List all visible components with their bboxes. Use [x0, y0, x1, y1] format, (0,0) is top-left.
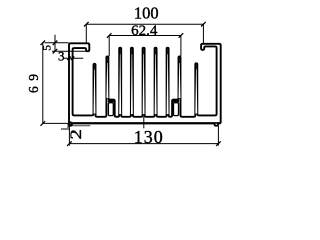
base bottom edge emphasis	[70, 122, 219, 124]
dim 2 ext right	[73, 125, 91, 127]
cap fill right	[172, 100, 179, 102]
fin hollow slit x=120.2	[119, 54, 121, 114]
svg-text:69: 69	[26, 69, 41, 94]
dim 62.4 ext lines	[108, 36, 110, 57]
svg-text:130: 130	[134, 127, 164, 147]
dim 62.4 line	[109, 35, 181, 37]
ticks dim 5	[53, 41, 58, 46]
dim 100 line	[86, 23, 203, 25]
fin hollow slit x=196.3	[195, 69, 197, 113]
fin hollow slit x=94.5	[94, 70, 96, 114]
fin hollow slit x=155.6	[155, 54, 157, 114]
cap fill left	[108, 100, 115, 102]
svg-text:5: 5	[42, 45, 54, 51]
svg-text:100: 100	[134, 4, 159, 23]
svg-text:62.4: 62.4	[131, 23, 158, 39]
dim 3 line	[63, 57, 83, 59]
svg-text:3: 3	[58, 48, 65, 63]
fin hollow slit x=143.6	[143, 54, 145, 114]
ticks dim 100	[84, 22, 89, 27]
dim 5 ext line	[52, 50, 88, 52]
heatsink profile outline	[69, 43, 221, 125]
screw-slot hole left	[108, 103, 113, 116]
ticks dim 2	[68, 122, 72, 126]
ticks dim 3	[67, 57, 70, 60]
fin hollow slit x=179.5	[179, 63, 181, 98]
dim 5 line	[54, 35, 56, 51]
fin hollow slit x=107.4	[106, 63, 108, 98]
svg-text:2: 2	[67, 129, 85, 139]
fin hollow slit x=131.9	[131, 54, 133, 114]
ticks dim 69	[41, 41, 46, 46]
ticks dim 130	[67, 141, 72, 146]
dim 2 line	[61, 128, 70, 130]
dim 130 line	[69, 143, 218, 145]
ticks dim 62.4	[107, 33, 112, 38]
dim 69 ext lines	[45, 42, 69, 44]
centerline	[143, 116, 145, 128]
dim 100 ext lines	[85, 24, 87, 42]
fin hollow slit x=167.6	[167, 54, 169, 114]
screw-slot hole right	[174, 103, 179, 116]
dim 69 line	[42, 43, 44, 124]
dim 130 ext lines	[68, 123, 70, 145]
